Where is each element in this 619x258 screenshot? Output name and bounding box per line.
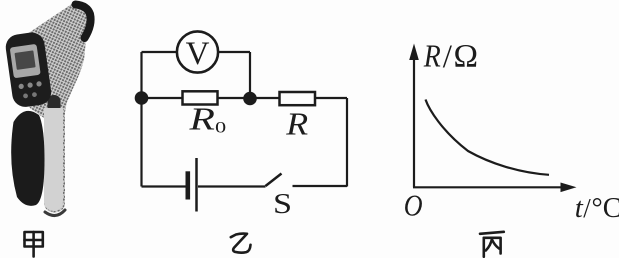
svg-text:/: / bbox=[583, 193, 591, 223]
svg-text:/: / bbox=[443, 39, 453, 75]
svg-text:°C: °C bbox=[592, 193, 619, 224]
svg-text:0: 0 bbox=[215, 119, 226, 136]
svg-text:Ω: Ω bbox=[454, 39, 479, 75]
svg-text:R: R bbox=[285, 107, 308, 142]
svg-text:R: R bbox=[188, 102, 215, 137]
svg-text:O: O bbox=[404, 188, 423, 223]
svg-text:S: S bbox=[273, 188, 292, 220]
svg-text:R: R bbox=[423, 39, 441, 74]
svg-text:V: V bbox=[186, 36, 210, 72]
